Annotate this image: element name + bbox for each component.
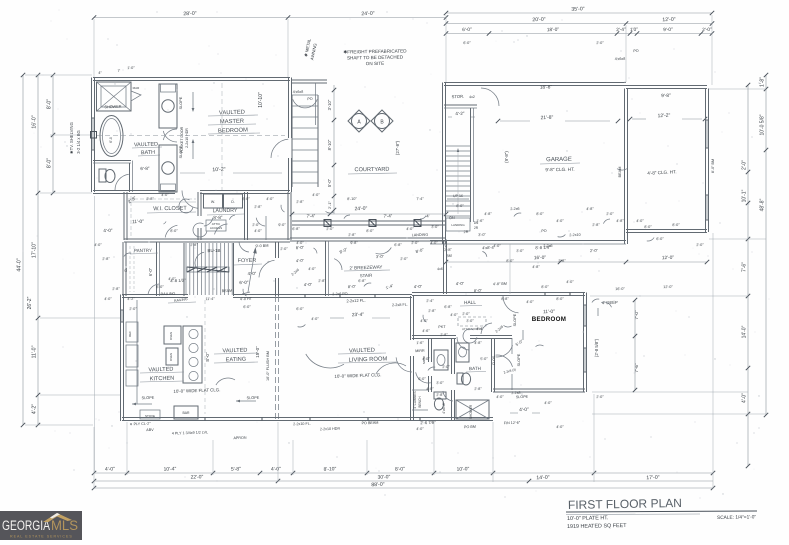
extension line: bottom x94 bbox=[93, 427, 95, 489]
wall: pantry right bbox=[157, 242, 160, 296]
svg-text:16'-0": 16'-0" bbox=[32, 115, 38, 128]
svg-text:COURTYARD: COURTYARD bbox=[354, 167, 389, 174]
svg-text:8'-10": 8'-10" bbox=[327, 139, 332, 150]
wall: bedroom bottom y390 bbox=[493, 389, 585, 392]
door arc: master bedroom to porch bbox=[271, 139, 288, 158]
svg-text:8'-0": 8'-0" bbox=[296, 245, 305, 250]
dimension line: left 44-0 overall bbox=[17, 73, 26, 427]
door arc: bedroom entry bbox=[503, 296, 519, 313]
svg-text:4'-0″: 4'-0″ bbox=[426, 387, 434, 391]
dimension line: right 48-8 overall bbox=[760, 73, 769, 417]
svg-text:10'-10": 10'-10" bbox=[258, 92, 264, 108]
extension line: left y425 bbox=[25, 424, 93, 426]
dimension label: 6-0 foyer low bbox=[239, 280, 249, 285]
wall: laundry right bbox=[245, 192, 248, 240]
svg-text:8'-0″: 8'-0″ bbox=[556, 297, 564, 301]
wall: garage left bbox=[443, 83, 446, 245]
svg-text:88'-0": 88'-0" bbox=[371, 482, 385, 488]
svg-text:SLOPE: SLOPE bbox=[517, 353, 521, 366]
appliance: washer bbox=[204, 194, 223, 208]
svg-text:2'-0″: 2'-0″ bbox=[326, 227, 334, 231]
svg-text:8'-0″: 8'-0″ bbox=[672, 223, 680, 227]
extension line: left y318 bbox=[40, 317, 120, 319]
svg-text:2-2x10 HDR: 2-2x10 HDR bbox=[185, 128, 189, 148]
extension line: bottom x434 bbox=[433, 422, 435, 475]
dimension label: 8-0 eating rotated bbox=[205, 352, 210, 362]
svg-text:4'-0″: 4'-0″ bbox=[544, 401, 552, 405]
svg-text:6'-0″: 6'-0″ bbox=[296, 307, 304, 311]
svg-text:(27'-8"): (27'-8") bbox=[395, 140, 400, 155]
svg-text:PO: PO bbox=[541, 229, 547, 233]
svg-text:4'x6x8: 4'x6x8 bbox=[293, 90, 304, 94]
svg-text:8'-0": 8'-0" bbox=[47, 99, 53, 109]
cabinet: vanity tower upper bbox=[159, 84, 177, 128]
svg-text:24'-0": 24'-0" bbox=[361, 11, 375, 17]
svg-text:BEAM: BEAM bbox=[222, 289, 233, 293]
wall: hall right of laundry bbox=[266, 192, 291, 240]
svg-text:9'-0": 9'-0" bbox=[663, 27, 673, 33]
extension line: bottom x713 bbox=[712, 233, 714, 489]
svg-text:8'-0″: 8'-0″ bbox=[366, 229, 374, 233]
svg-text:DN: DN bbox=[449, 216, 455, 220]
extension line: bottom x278 bbox=[277, 422, 279, 482]
svg-text:PO BM: PO BM bbox=[464, 425, 476, 429]
cabinet: ovens bbox=[164, 326, 181, 365]
room label: foyer bbox=[234, 258, 270, 265]
dimension label: foyer 4-0 bbox=[247, 271, 256, 276]
svg-text:1'-6″: 1'-6″ bbox=[416, 341, 424, 345]
ceiling note: living flat clg bbox=[334, 372, 381, 379]
shelving: pantry dashed bbox=[124, 246, 134, 292]
door arc: wic entry bbox=[165, 225, 177, 237]
wall: kitchen left x122 bbox=[121, 295, 124, 422]
wall: breezeway vertical x327 bbox=[326, 241, 329, 296]
stair: main stair treads bbox=[184, 243, 234, 296]
svg-text:2'-0": 2'-0" bbox=[702, 27, 712, 33]
svg-text:2'-0″: 2'-0″ bbox=[462, 312, 470, 316]
dimension label: 6-8 bath bbox=[140, 166, 150, 171]
wall: hall-bedroom y337 right segment bbox=[493, 336, 512, 339]
svg-text:4'-0": 4'-0" bbox=[519, 407, 529, 413]
svg-text:W.I. CLOSET: W.I. CLOSET bbox=[153, 206, 187, 213]
svg-text:4'-8″: 4'-8″ bbox=[474, 341, 482, 345]
blocking: dark square on left wall bbox=[91, 132, 97, 139]
room label: breezeway bbox=[344, 264, 390, 278]
cabinet: bar bbox=[174, 406, 198, 419]
svg-text:4'-0″: 4'-0″ bbox=[308, 267, 316, 271]
svg-text:5'-8": 5'-8" bbox=[231, 466, 241, 472]
door arc: toilet room bbox=[115, 174, 129, 190]
dimension label: 2-6 78 below bath bbox=[420, 420, 436, 426]
stair label: up 16r bbox=[447, 194, 469, 199]
svg-text:8'-0": 8'-0" bbox=[47, 158, 53, 168]
wall: bay right bbox=[706, 89, 709, 233]
dimension line: bottom 88-0 overall bbox=[92, 482, 715, 490]
svg-text:(9'-8"): (9'-8") bbox=[504, 151, 509, 163]
extension line: top x626 bbox=[625, 25, 627, 82]
window: south wall mullions bbox=[205, 418, 420, 421]
svg-text:3'-0″: 3'-0″ bbox=[431, 225, 439, 229]
svg-text:2'-0": 2'-0" bbox=[590, 248, 599, 253]
extension line: right y239 bbox=[709, 238, 766, 240]
svg-text:ABV: ABV bbox=[146, 428, 154, 432]
svg-text:2'-0″: 2'-0″ bbox=[596, 41, 604, 45]
extension line: right y296 bbox=[590, 295, 748, 297]
closet: front partial wall x512 bbox=[511, 338, 513, 390]
room label: bay clg ht bbox=[647, 169, 677, 176]
annotation cluster: middle band bbox=[94, 41, 704, 440]
svg-text:6'-8″: 6'-8″ bbox=[292, 227, 300, 231]
svg-text:SLOPE: SLOPE bbox=[516, 395, 529, 399]
dimension line: top-right 6-0 18-0 2-0 1-0 9-0 2-0 bbox=[444, 27, 714, 36]
svg-text:18'-0": 18'-0" bbox=[547, 27, 560, 33]
wall: garage top bbox=[444, 83, 626, 86]
window: bedroom right windows bbox=[584, 305, 587, 372]
svg-text:1'-6″: 1'-6″ bbox=[476, 219, 484, 223]
svg-text:SLOPE: SLOPE bbox=[179, 145, 183, 158]
svg-text:4x6: 4x6 bbox=[437, 267, 443, 271]
svg-text:6'-0": 6'-0" bbox=[462, 27, 472, 33]
wall: band y240 horizontal bbox=[124, 239, 290, 242]
ceiling note: kitchen flat clg bbox=[173, 387, 220, 394]
svg-text:GEORGIA: GEORGIA bbox=[2, 518, 50, 533]
column: courtyard column B bbox=[371, 110, 393, 132]
attic access: laundry bbox=[206, 220, 226, 231]
wall: foyer right bbox=[276, 242, 279, 296]
wall: master suite top bbox=[93, 78, 290, 81]
svg-text:9'-8" CLG. HT.: 9'-8" CLG. HT. bbox=[545, 167, 574, 173]
wall: closet-laundry divider bbox=[198, 192, 201, 240]
annotation cluster: leader hooks bbox=[124, 199, 654, 371]
door arc: bath entry bbox=[457, 337, 469, 350]
dimension labels: breezeway right cluster bbox=[456, 281, 525, 347]
dimension label: 4-0 below bedroom bbox=[510, 407, 540, 413]
svg-text:17'-0": 17'-0" bbox=[646, 475, 660, 481]
wall: powder-bath divider x453 bbox=[452, 339, 455, 422]
svg-text:MIRR: MIRR bbox=[415, 349, 425, 353]
svg-text:6'-8″: 6'-8″ bbox=[444, 305, 452, 309]
curved arrow: living room bbox=[306, 354, 406, 374]
svg-text:4'-2″: 4'-2″ bbox=[127, 297, 135, 301]
svg-text:4'-0": 4'-0" bbox=[414, 284, 423, 289]
svg-text:8'-0": 8'-0" bbox=[348, 284, 357, 289]
svg-text:4'-0": 4'-0" bbox=[271, 466, 281, 472]
svg-text:12'-0": 12'-0" bbox=[662, 17, 676, 23]
svg-text:8'-0″: 8'-0″ bbox=[170, 229, 178, 233]
svg-text:OVEN: OVEN bbox=[169, 353, 173, 361]
svg-text:8'-0": 8'-0" bbox=[395, 466, 405, 472]
svg-text:8'-0″: 8'-0″ bbox=[506, 259, 514, 263]
cabinet: vanity tower lower bbox=[159, 145, 177, 192]
fixture: shower master bath bbox=[97, 82, 132, 111]
note: freight prefabricated shaft bbox=[343, 48, 407, 66]
dimension label: 8-8 laundry bbox=[213, 215, 223, 220]
svg-text:11'-0": 11'-0" bbox=[32, 345, 38, 358]
dimension labels: below garage bbox=[444, 245, 598, 258]
stair: porch steps west of courtyard bbox=[292, 95, 318, 187]
svg-text:16'-0″: 16'-0″ bbox=[615, 287, 625, 291]
svg-text:4'-0": 4'-0" bbox=[247, 271, 256, 276]
svg-text:UP 16: UP 16 bbox=[453, 194, 463, 198]
extension line: bottom x594 bbox=[593, 394, 595, 482]
extension line: left y75 bbox=[25, 74, 92, 76]
svg-text:35'-0": 35'-0" bbox=[571, 6, 585, 12]
svg-text:4'-0″: 4'-0″ bbox=[493, 244, 501, 248]
svg-text:6'-0″: 6'-0″ bbox=[656, 237, 664, 241]
svg-text:6'-0: 6'-0 bbox=[109, 137, 113, 143]
svg-text:3-2 1/4 x BG: 3-2 1/4 x BG bbox=[76, 130, 81, 154]
note: slope arrows master bedroom bbox=[179, 92, 194, 159]
svg-text:FIRST FLOOR PLAN: FIRST FLOOR PLAN bbox=[568, 496, 682, 512]
wall: toilet room master bbox=[93, 161, 133, 193]
svg-text:BENCH: BENCH bbox=[418, 396, 422, 408]
dimension label: 7-0 right rotated bbox=[634, 310, 639, 320]
svg-text:PANTRY: PANTRY bbox=[134, 248, 152, 253]
title: first floor plan bbox=[568, 496, 682, 512]
wall: garage-bay divider bbox=[625, 89, 628, 245]
title underline bbox=[566, 511, 757, 515]
svg-text:4'-0″: 4'-0″ bbox=[422, 357, 430, 361]
svg-text:2-2x6 PO: 2-2x6 PO bbox=[332, 292, 348, 297]
svg-text:23'-4": 23'-4" bbox=[352, 312, 365, 318]
svg-text:2-2x8 FL.: 2-2x8 FL. bbox=[392, 303, 408, 308]
svg-text:7'-4": 7'-4" bbox=[306, 213, 315, 218]
svg-text:10'-1": 10'-1" bbox=[742, 189, 748, 202]
svg-text:4'-0″: 4'-0″ bbox=[311, 317, 319, 321]
landing: garage stair landing bbox=[446, 218, 479, 231]
svg-text:1919 HEATED SQ FEET: 1919 HEATED SQ FEET bbox=[567, 523, 627, 530]
svg-text:5'-0″: 5'-0″ bbox=[480, 357, 488, 361]
extension line: top x446 bbox=[445, 15, 447, 82]
svg-text:21'-8": 21'-8" bbox=[540, 115, 553, 121]
curved arrow: eating bbox=[216, 378, 235, 385]
svg-text:4'-0″: 4'-0″ bbox=[266, 197, 274, 201]
svg-text:2'-8″: 2'-8″ bbox=[592, 223, 600, 227]
wall: hall left x412 bbox=[411, 296, 414, 421]
note: 8-0 bm bay rotated bbox=[711, 159, 715, 173]
svg-text:4'-0": 4'-0" bbox=[742, 393, 748, 403]
dimension label: 9-8 bay top bbox=[661, 93, 671, 99]
dimension label: 4-0 left lower bbox=[103, 228, 113, 233]
svg-text:8'-8": 8'-8" bbox=[213, 215, 223, 220]
svg-text:6'-0″: 6'-0″ bbox=[463, 41, 471, 45]
svg-text:PKT: PKT bbox=[438, 325, 446, 329]
room label: stor bbox=[451, 94, 474, 99]
svg-text:16'-0" FLUSH BM: 16'-0" FLUSH BM bbox=[266, 351, 270, 381]
dimension label: 9-8 rotated garage left bbox=[504, 151, 509, 163]
note: pocket door rotated bbox=[180, 126, 189, 153]
svg-text:2-2x6: 2-2x6 bbox=[543, 244, 552, 248]
svg-text:11'-4″: 11'-4″ bbox=[205, 297, 215, 301]
svg-text:11'-0": 11'-0" bbox=[543, 309, 555, 315]
dimension line: top-right 20-0 / 12-0 bbox=[444, 17, 714, 26]
extension line: x510 below garage bbox=[509, 244, 511, 294]
wall: south wall kitchen-living bbox=[122, 418, 493, 421]
svg-text:2'-0″: 2'-0″ bbox=[400, 257, 408, 261]
svg-text:8'-8″: 8'-8″ bbox=[501, 297, 509, 301]
svg-text:4'-8″: 4'-8″ bbox=[484, 212, 492, 216]
svg-text:6'-0″: 6'-0″ bbox=[242, 197, 250, 201]
svg-text:8'-0″: 8'-0″ bbox=[541, 285, 549, 289]
svg-text:4'x6x8: 4'x6x8 bbox=[615, 57, 626, 61]
svg-text:2'-8″: 2'-8″ bbox=[348, 233, 356, 237]
svg-text:4'-0″: 4'-0″ bbox=[636, 219, 644, 223]
annotation cluster: small door arcs bbox=[148, 218, 492, 401]
svg-text:4'-0″: 4'-0″ bbox=[450, 313, 458, 317]
door arc: bath to bedroom passage bbox=[163, 129, 177, 142]
svg-text:3'-0": 3'-0" bbox=[478, 233, 486, 237]
dimension label: 2-8 58 rotated bbox=[594, 338, 599, 357]
svg-text:8'-0″: 8'-0″ bbox=[456, 204, 464, 208]
extension line: left y395 bbox=[40, 394, 120, 396]
svg-text:PO: PO bbox=[307, 97, 313, 101]
svg-text:8'-0″: 8'-0″ bbox=[536, 212, 544, 216]
svg-text:SLOPE: SLOPE bbox=[513, 313, 517, 326]
note: slope eating bbox=[236, 396, 260, 403]
svg-text:4'-8″: 4'-8″ bbox=[616, 219, 624, 223]
svg-text:8'-10": 8'-10" bbox=[323, 466, 336, 472]
svg-text:2R: 2R bbox=[464, 230, 469, 234]
note: bu-1b label bbox=[195, 248, 221, 269]
room label: wi closet bbox=[147, 206, 196, 213]
dimension line: right of bedroom vertical bbox=[633, 298, 637, 392]
svg-text:4'-0″: 4'-0″ bbox=[430, 241, 438, 245]
svg-text:2'-4″: 2'-4″ bbox=[426, 299, 434, 303]
door arc: foyer closet bbox=[259, 260, 275, 277]
extension line: top x288 bbox=[287, 19, 289, 77]
svg-text:4'-0″: 4'-0″ bbox=[161, 193, 169, 197]
dimension line: top-left 28-0 / 24-0 bbox=[92, 11, 448, 20]
fixture: bath toilet bbox=[457, 373, 471, 385]
svg-text:4'-0": 4'-0" bbox=[105, 466, 115, 472]
svg-text:2'-0″: 2'-0″ bbox=[280, 247, 288, 251]
svg-text:2'-8″: 2'-8″ bbox=[146, 197, 154, 201]
extension line: bottom x213 bbox=[212, 440, 214, 475]
room label: vaulted bath bbox=[132, 142, 162, 157]
stair: up arrow bbox=[242, 247, 257, 294]
svg-text:LAUNDRY: LAUNDRY bbox=[213, 208, 238, 214]
svg-text:2-2x10: 2-2x10 bbox=[569, 233, 580, 237]
fixture: shower 4ft bbox=[456, 400, 489, 419]
svg-text:BEAM: BEAM bbox=[618, 167, 622, 178]
stair: section hatch band bbox=[187, 267, 229, 272]
title: plate height note bbox=[567, 515, 609, 522]
svg-text:14'-0": 14'-0" bbox=[742, 325, 748, 338]
flag: shower note pennant bbox=[131, 86, 141, 101]
svg-text:ON SITE: ON SITE bbox=[366, 61, 384, 66]
note: rotated shaft marker bbox=[303, 38, 318, 61]
svg-text:4'-0″: 4'-0″ bbox=[406, 227, 414, 231]
svg-text:4'-0″: 4'-0″ bbox=[526, 300, 534, 304]
svg-text:12'-2": 12'-2" bbox=[657, 113, 670, 119]
svg-text:6'-0″: 6'-0″ bbox=[418, 377, 426, 381]
svg-text:2'-8″: 2'-8″ bbox=[474, 387, 482, 391]
svg-text:2-2x12 FL.: 2-2x12 FL. bbox=[346, 298, 365, 304]
svg-text:12'-0″: 12'-0″ bbox=[663, 285, 673, 289]
svg-text:BATH: BATH bbox=[469, 366, 481, 371]
svg-text:7'-4″: 7'-4″ bbox=[416, 197, 424, 201]
dimension label: 23-4 living bbox=[330, 312, 390, 318]
svg-text:STAIR: STAIR bbox=[360, 273, 373, 278]
svg-text:2'-8″: 2'-8″ bbox=[296, 200, 304, 204]
dimension label: 21-8 garage bbox=[496, 115, 620, 123]
note: tv shelving rotated bbox=[69, 122, 81, 154]
svg-text:4'-0″: 4'-0″ bbox=[254, 229, 262, 233]
wall: pantry left continuation bbox=[123, 242, 126, 296]
extension line: right y414 bbox=[592, 413, 766, 415]
fixture: master tub bbox=[100, 116, 123, 157]
svg-text:9'-8″: 9'-8″ bbox=[350, 241, 358, 245]
svg-text:W.: W. bbox=[211, 200, 215, 204]
svg-text:3'-0″: 3'-0″ bbox=[436, 381, 444, 385]
window: kitchen left wall bbox=[121, 310, 124, 322]
wall: storage closet bbox=[444, 105, 477, 108]
svg-text:SHAFT TO BE DETACHED: SHAFT TO BE DETACHED bbox=[347, 54, 404, 60]
svg-text:4'-0″: 4'-0″ bbox=[312, 193, 320, 197]
svg-text:6'-0": 6'-0" bbox=[148, 267, 153, 276]
fixture: toilet master bbox=[99, 169, 115, 183]
svg-text:2'-6 7/8": 2'-6 7/8" bbox=[420, 420, 436, 426]
note: 4ft deep right bbox=[598, 300, 618, 316]
svg-text:2'-8″: 2'-8″ bbox=[190, 243, 198, 247]
wall: master suite left bbox=[92, 78, 95, 193]
extension line: right y89 bbox=[709, 88, 766, 90]
svg-text:2'-8″: 2'-8″ bbox=[558, 259, 566, 263]
svg-text:FIN 12'-6″: FIN 12'-6″ bbox=[504, 421, 521, 426]
extension line: left y135 bbox=[50, 134, 92, 136]
svg-text:2'-1": 2'-1" bbox=[327, 200, 332, 209]
dimension line: left chain 8-0 / 8-0 bbox=[47, 73, 56, 195]
dimension label: 18-8 garage top bbox=[540, 84, 553, 90]
logo: GeorgiaMLS bbox=[0, 511, 82, 540]
svg-text:28'-0": 28'-0" bbox=[183, 11, 197, 17]
svg-text:6'-8″: 6'-8″ bbox=[394, 243, 402, 247]
millwork: mud bench cubbies bbox=[412, 390, 428, 410]
svg-text:8'-0″: 8'-0″ bbox=[644, 225, 652, 229]
svg-text:44'-0": 44'-0" bbox=[17, 258, 23, 271]
dimension label: 26-2 left rotated bbox=[27, 296, 33, 309]
svg-text:8'-10″: 8'-10″ bbox=[347, 197, 357, 201]
dimension chain: courtyard west rotated labels bbox=[327, 85, 336, 214]
extension line: x94 long bbox=[94, 196, 96, 472]
svg-text:SCALE: 1/4"=1'-0": SCALE: 1/4"=1'-0" bbox=[717, 514, 757, 521]
svg-text:10'-0 5/8": 10'-0 5/8" bbox=[760, 114, 766, 135]
dimension line: top-right 35-0 bbox=[444, 6, 714, 15]
dimension label: 7-6 right rotated bbox=[634, 363, 639, 373]
svg-text:4'-0": 4'-0" bbox=[103, 228, 113, 233]
fixture: bath vanity bbox=[456, 343, 469, 362]
svg-text:2'-8″: 2'-8″ bbox=[428, 309, 436, 313]
svg-text:7': 7' bbox=[118, 69, 121, 73]
svg-text:4'-0″: 4'-0″ bbox=[556, 219, 564, 223]
svg-text:✱TV. SHELVING: ✱TV. SHELVING bbox=[69, 122, 74, 154]
svg-text:HALL: HALL bbox=[464, 300, 476, 306]
wall: garage bay top bbox=[626, 86, 707, 89]
svg-text:4x2: 4x2 bbox=[469, 95, 475, 99]
svg-text:4'-0″: 4'-0″ bbox=[420, 319, 428, 323]
attic access: hall dashed bbox=[458, 317, 486, 331]
svg-text:PO BEAM: PO BEAM bbox=[361, 421, 378, 426]
wall: bedroom closet left x493 bbox=[492, 339, 495, 393]
landing: breezeway landing bbox=[0, 0, 1, 1]
extension line: left y193 bbox=[40, 192, 92, 194]
svg-text:REF: REF bbox=[128, 331, 132, 337]
svg-text:4'-0″: 4'-0″ bbox=[94, 243, 102, 247]
svg-text:1'-0″: 1'-0″ bbox=[127, 66, 135, 70]
door arc: breezeway doors bbox=[334, 248, 391, 271]
svg-text:9'-0″: 9'-0″ bbox=[278, 223, 286, 227]
room label: bedroom bbox=[532, 309, 566, 323]
